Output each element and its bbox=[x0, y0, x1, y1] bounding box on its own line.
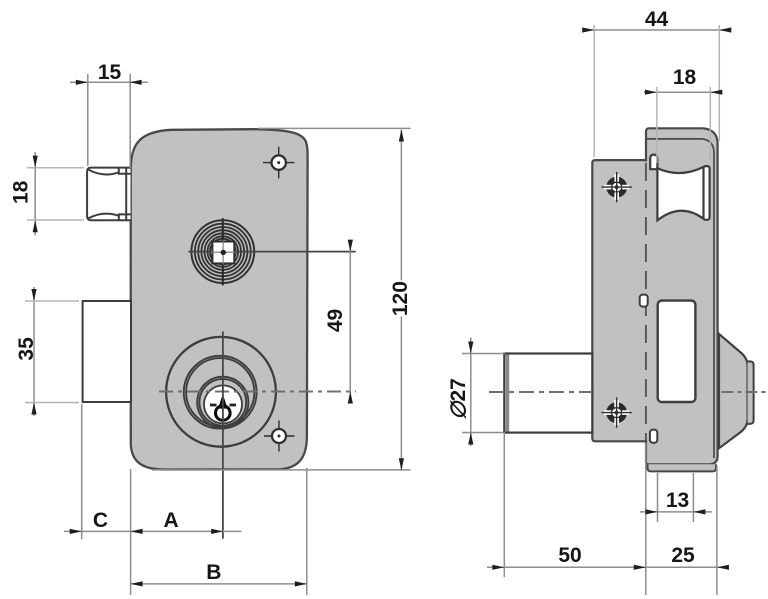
svg-text:∅27: ∅27 bbox=[447, 378, 470, 420]
svg-text:18: 18 bbox=[673, 66, 697, 89]
svg-text:49: 49 bbox=[324, 309, 347, 332]
svg-text:C: C bbox=[93, 509, 108, 532]
svg-text:15: 15 bbox=[98, 61, 122, 84]
svg-text:35: 35 bbox=[15, 337, 38, 361]
svg-text:25: 25 bbox=[671, 544, 695, 567]
svg-text:B: B bbox=[206, 561, 221, 584]
svg-text:120: 120 bbox=[389, 281, 412, 316]
svg-text:A: A bbox=[164, 509, 179, 532]
svg-text:18: 18 bbox=[10, 180, 33, 204]
svg-text:44: 44 bbox=[645, 8, 669, 31]
svg-text:50: 50 bbox=[558, 544, 581, 567]
svg-text:13: 13 bbox=[666, 489, 689, 512]
